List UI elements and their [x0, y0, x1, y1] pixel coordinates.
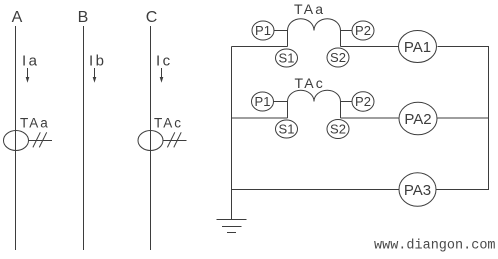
wire S1 lead down (TAc): [287, 102, 289, 119]
wire phase A conductor: [15, 26, 17, 250]
svg-text:www.diangon.com: www.diangon.com: [374, 239, 496, 254]
wire P1 to winding (TAa): [274, 30, 288, 32]
terminal P1 of TAc: [252, 92, 274, 111]
svg-text:PA3: PA3: [404, 182, 431, 199]
svg-text:PA2: PA2: [404, 111, 431, 128]
current transformer TAa (on phase A): [4, 116, 53, 151]
wire winding to P2 (TAc): [341, 101, 353, 103]
svg-text:TAc: TAc: [154, 116, 183, 131]
terminal S1 of TAa: [276, 49, 298, 67]
current transformer TAc (on phase C): [138, 116, 187, 151]
terminal S1 of TAc: [276, 120, 298, 138]
arrow current direction Ia: [26, 68, 30, 83]
svg-text:TAa: TAa: [294, 1, 325, 17]
wire PA1 to right bus: [438, 46, 490, 48]
svg-text:Ia: Ia: [22, 53, 40, 70]
svg-text:S1: S1: [279, 51, 295, 66]
svg-text:Ic: Ic: [156, 53, 173, 70]
svg-text:B: B: [78, 9, 89, 26]
svg-text:P1: P1: [255, 23, 271, 38]
svg-text:Ib: Ib: [89, 53, 107, 70]
terminal S2 of TAa: [327, 48, 349, 67]
wire S2 lead down (TAc): [340, 102, 342, 119]
arrow current direction Ic: [160, 68, 164, 83]
terminal P2 of TAa: [352, 21, 374, 40]
svg-text:C: C: [146, 9, 158, 26]
winding of TAa (primary bar with secondary bumps): [288, 19, 341, 31]
wire winding to P2 (TAa): [341, 30, 353, 32]
ammeter PA3: [399, 173, 436, 207]
wire PA2 to right bus: [438, 117, 490, 119]
svg-text:A: A: [12, 9, 23, 26]
wire phase C conductor: [150, 26, 152, 250]
wire S2 to PA1: [341, 46, 399, 48]
wire right bus (return): [488, 47, 490, 190]
ground: [217, 220, 247, 233]
wire S2 lead down (TAa): [340, 31, 342, 47]
wire left bus to PA3 (row 3): [232, 189, 400, 191]
svg-text:S2: S2: [330, 50, 346, 65]
winding of TAc (primary bar with secondary bumps): [288, 90, 341, 101]
ammeter PA2: [399, 102, 437, 135]
wire S2 to PA2: [341, 117, 399, 119]
svg-text:P2: P2: [355, 23, 371, 38]
arrow current direction Ib: [93, 68, 97, 83]
wire left bus to S1 (row 1): [232, 46, 288, 48]
terminal S2 of TAc: [327, 120, 349, 139]
terminal P2 of TAc: [352, 92, 374, 112]
svg-text:S2: S2: [330, 122, 346, 137]
ammeter PA1: [399, 31, 437, 63]
wire left bus to S1 (row 2): [232, 117, 288, 119]
svg-text:PA1: PA1: [404, 39, 431, 56]
svg-text:P1: P1: [255, 94, 271, 109]
svg-text:P2: P2: [355, 94, 371, 109]
wire phase B conductor: [83, 26, 85, 250]
wire PA3 to right bus: [436, 189, 489, 191]
wire P1 to winding (TAc): [274, 101, 288, 103]
svg-text:S1: S1: [279, 122, 295, 137]
svg-text:TAa: TAa: [20, 116, 50, 131]
terminal P1 of TAa: [252, 21, 274, 40]
wire S1 lead down (TAa): [287, 31, 289, 47]
wire left bus (neutral): [231, 47, 233, 220]
svg-text:TAc: TAc: [295, 75, 325, 91]
